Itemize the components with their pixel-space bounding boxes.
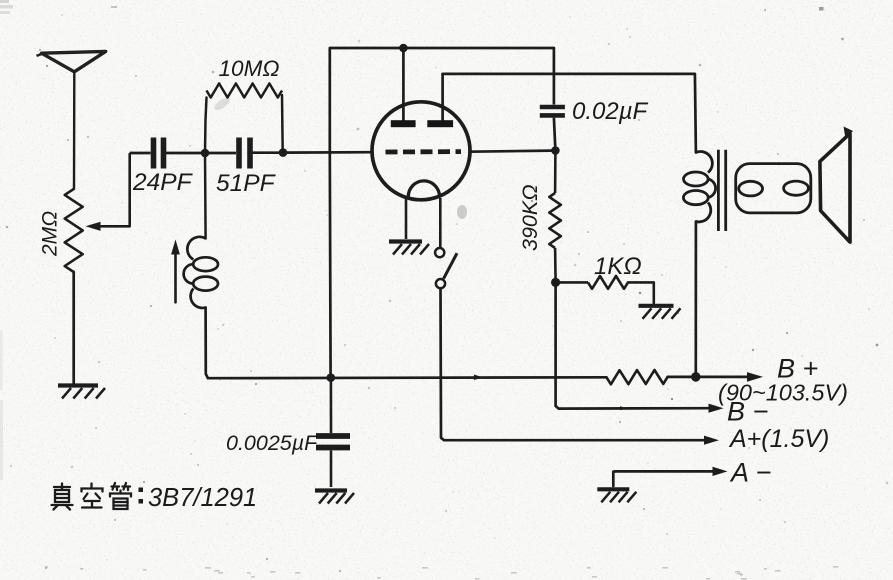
svg-text:A+(1.5V): A+(1.5V) [728,425,829,453]
transformer secondary / voice coil [736,164,811,213]
resistor 1KΩ [556,276,654,303]
node B+ junction [691,372,701,382]
wire grid line right segment [470,151,553,152]
svg-text:(90~103.5V): (90~103.5V) [718,380,848,406]
svg-text:A −: A − [729,458,771,488]
resistor 2MΩ (antenna potentiometer) [65,189,83,272]
ground A- [597,487,629,491]
node plate node on top bus [399,44,408,53]
speaker [820,127,853,243]
transformer core [717,150,720,231]
svg-text:1KΩ: 1KΩ [594,253,642,280]
tube filament arc [408,181,439,197]
wire tap arrow to 2MΩ [98,154,130,226]
arrow tuning indicator [171,240,180,303]
svg-text:390KΩ: 390KΩ [518,184,542,251]
tube grid (dashed) [386,149,462,154]
capacitor 24PF [130,138,205,169]
wire transformer primary to B+ bus [694,222,697,378]
wire switch to A+ terminal [441,288,705,440]
label tube type caption 真空管 (drawn strokes) [52,483,132,510]
wire screen line to output transformer [443,74,696,153]
capacitor 0.02µF [540,48,565,151]
svg-text:51PF: 51PF [216,170,277,197]
svg-text:2MΩ: 2MΩ [39,211,62,257]
antenna [37,51,106,71]
capacitor 0.0025µF [316,378,350,487]
tube plate lead left [402,48,405,121]
tube 3B7/1291 [372,48,470,248]
svg-text:0.02µF: 0.02µF [572,98,649,125]
node bypass junction [327,373,336,382]
resistor 390KΩ [549,151,561,283]
ground antenna circuit [58,383,98,387]
node grid-cap junction [551,146,560,155]
capacitor 51PF [205,138,283,169]
node grid leak junction [279,148,288,157]
wire B+ resistor to node [668,376,696,379]
tube cathode lead left [405,198,408,240]
wire 2MΩ to ground [72,272,75,384]
node 390K-1K junction [551,278,560,287]
label caption colon [139,488,144,493]
transformer output [683,150,810,231]
inductor tuning coil [184,237,218,308]
switch filament on/off [435,248,457,288]
wire antenna lead [73,72,76,189]
resistor 10MΩ grid leak [205,84,283,154]
wire coil bottom to bus [206,308,208,379]
ground 1KΩ [639,304,674,308]
tube cathode lead right [439,198,442,248]
tube plate lead right [441,74,444,121]
ground bypass capacitor [315,488,347,492]
wire bottom B+ bus [208,376,607,380]
wire grid line to tube [283,151,373,154]
svg-text:3B7/1291: 3B7/1291 [148,484,257,512]
wire B- line [556,282,710,408]
wire top bus (plate supply loop) [330,48,554,152]
wire A- terminal [613,471,713,486]
node grid input junction [201,149,210,158]
resistor B+ dropping [607,370,668,384]
svg-text:10MΩ: 10MΩ [219,56,280,81]
tube plate bar right [427,120,453,127]
tube plate bar left [391,120,416,127]
wire B+ arrow lead [696,376,748,379]
svg-text:0.0025µF: 0.0025µF [226,431,319,455]
wire junction to coil [204,153,207,239]
svg-text:24PF: 24PF [132,169,194,196]
wire left drop of top bus [328,152,332,378]
ground tube cathode [389,239,422,243]
transformer primary winding [696,152,712,173]
